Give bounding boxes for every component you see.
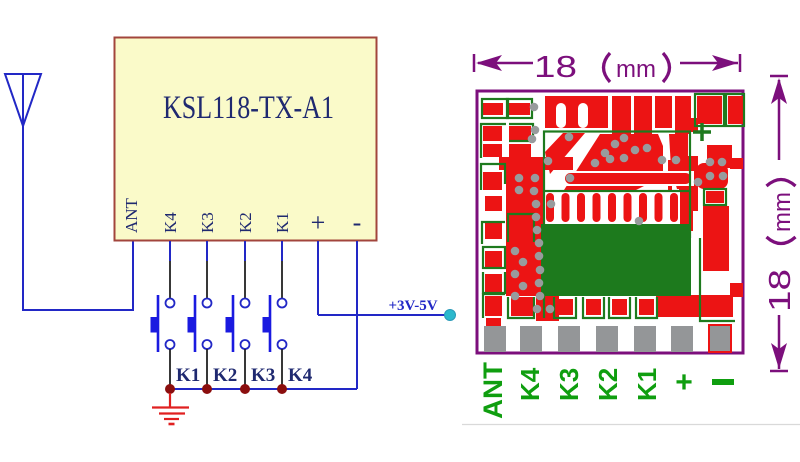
svg-text:+: + bbox=[675, 366, 693, 399]
svg-text:K1: K1 bbox=[176, 365, 200, 386]
svg-text:+: + bbox=[311, 208, 326, 237]
svg-text:KSL118-TX-A1: KSL118-TX-A1 bbox=[163, 90, 334, 126]
svg-text:mm: mm bbox=[616, 56, 656, 83]
svg-text:K3: K3 bbox=[251, 365, 275, 386]
svg-text:ANT: ANT bbox=[478, 361, 508, 419]
svg-text:K2: K2 bbox=[593, 368, 623, 401]
svg-text:mm: mm bbox=[769, 192, 796, 232]
svg-text:K1: K1 bbox=[632, 368, 662, 401]
svg-text:+3V-5V: +3V-5V bbox=[388, 298, 437, 314]
svg-text:K3: K3 bbox=[554, 368, 584, 401]
svg-text:K4: K4 bbox=[161, 212, 180, 233]
svg-text:ANT: ANT bbox=[122, 197, 141, 233]
svg-text:K4: K4 bbox=[288, 365, 313, 386]
svg-text:K4: K4 bbox=[515, 367, 545, 401]
svg-text:18: 18 bbox=[762, 269, 797, 312]
svg-text:-: - bbox=[353, 208, 362, 237]
svg-text:K2: K2 bbox=[213, 365, 237, 386]
svg-text:18: 18 bbox=[534, 49, 577, 84]
svg-text:K1: K1 bbox=[273, 212, 292, 233]
svg-text:K2: K2 bbox=[236, 212, 255, 233]
svg-text:K3: K3 bbox=[198, 212, 217, 233]
